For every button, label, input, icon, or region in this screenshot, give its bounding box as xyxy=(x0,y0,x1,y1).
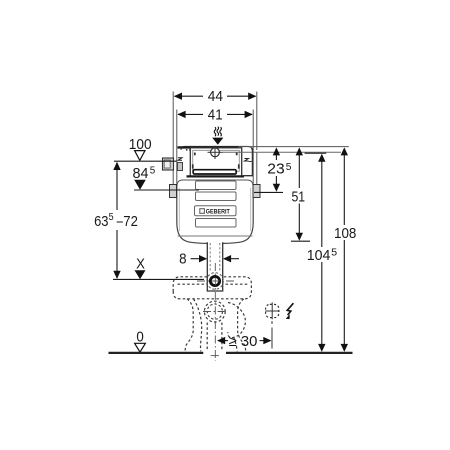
water connection crosshair xyxy=(208,146,223,159)
svg-text:5: 5 xyxy=(109,212,114,223)
leader line B from water connection to right dims xyxy=(223,151,342,153)
access box frame xyxy=(187,148,245,177)
reference line A (cistern top level, to right dims) xyxy=(238,146,349,148)
toilet spud circle outer xyxy=(204,301,225,322)
svg-text:72: 72 xyxy=(123,213,138,230)
dimension 51 xyxy=(291,147,310,241)
svg-text:104: 104 xyxy=(307,247,331,264)
datum 0 xyxy=(135,329,146,353)
cistern upper section side walls xyxy=(173,150,257,186)
svg-text:63: 63 xyxy=(94,213,108,230)
dimension 41 xyxy=(177,107,252,124)
right mounting clip xyxy=(253,185,260,198)
dimension 108 xyxy=(334,147,356,352)
svg-text:GEBERIT: GEBERIT xyxy=(206,209,230,215)
small z-tick right of access box xyxy=(245,159,254,162)
dimension >=30 xyxy=(217,333,272,350)
cistern inner bottom line xyxy=(178,235,253,237)
protection plate right edge xyxy=(243,148,252,176)
svg-text:X: X xyxy=(136,256,145,273)
dimension 104.5 xyxy=(307,154,338,352)
ground line left segment xyxy=(109,352,204,354)
datum 100 xyxy=(114,136,177,161)
panel P3 xyxy=(196,219,237,228)
dimension 63.5-72 xyxy=(94,162,138,279)
dimension 8 (pipe width) xyxy=(179,251,239,268)
wire: right outer wall extension line xyxy=(256,92,258,151)
svg-text:84: 84 xyxy=(133,165,149,182)
left mounting clip xyxy=(170,185,177,198)
geberit logo box xyxy=(195,206,237,216)
filling valve bracket on left wall xyxy=(163,158,183,171)
cistern body outline xyxy=(177,184,253,243)
water supply squiggle arrow xyxy=(212,127,223,145)
panel P2 xyxy=(196,192,237,201)
panel P1 xyxy=(196,181,237,190)
svg-text:51: 51 xyxy=(292,188,306,205)
lightning bolt xyxy=(286,303,294,319)
svg-text:44: 44 xyxy=(208,88,223,105)
horizontal centerline through ring xyxy=(197,280,234,282)
svg-text:5: 5 xyxy=(150,165,156,176)
short reference line for 104.5 xyxy=(305,152,327,154)
centerline cross tick below ground xyxy=(211,355,219,357)
spud horizontal centerline xyxy=(203,311,228,313)
dimension 44 xyxy=(174,88,257,105)
flush bend tray in access box xyxy=(193,170,236,174)
vertical centerline of toilet xyxy=(214,263,216,361)
svg-text:41: 41 xyxy=(208,107,223,124)
toilet spud circle inner xyxy=(207,304,222,319)
svg-text:≥ 30: ≥ 30 xyxy=(229,333,258,350)
svg-text:8: 8 xyxy=(179,251,186,268)
wire: left inner wall extension line xyxy=(176,110,178,153)
cistern lid top edge xyxy=(178,146,253,150)
svg-text:108: 108 xyxy=(334,225,356,242)
cistern inner side lines xyxy=(178,188,180,231)
flush pipe xyxy=(207,242,222,291)
svg-text:5: 5 xyxy=(331,247,337,258)
electrical socket symbol xyxy=(265,302,279,319)
dimension 23.5 xyxy=(254,147,292,192)
pipe connector ring xyxy=(207,273,224,290)
svg-text:5: 5 xyxy=(286,162,292,173)
ground line right segment xyxy=(226,352,353,354)
toilet bowl rim (dashed) xyxy=(173,277,251,352)
socket centerline down to dimension xyxy=(271,321,273,324)
datum X xyxy=(113,256,204,280)
cistern shoulder line xyxy=(177,180,253,186)
wire: right inner wall extension line xyxy=(252,110,254,153)
wire: left outer wall extension line xyxy=(172,92,174,151)
svg-text:23: 23 xyxy=(267,160,284,177)
datum 84.5 xyxy=(133,165,200,190)
